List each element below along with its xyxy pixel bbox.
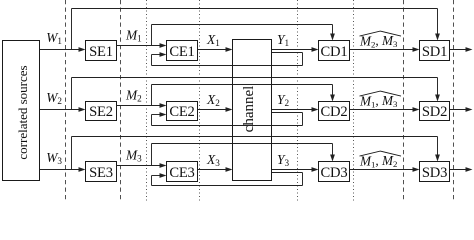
feedback wire from channel output to CE1 (tap, underpass, return) xyxy=(152,52,303,65)
wire Y1 (channel to CD1) xyxy=(272,47,319,52)
wire W1 (sources to SE1) xyxy=(40,47,86,52)
channel encoder CE1 xyxy=(167,41,198,61)
output wire of SD2 xyxy=(450,107,473,112)
wire W3 side-information feed to SD3 (riser, top run, drop) xyxy=(72,137,440,170)
svg-text:SE2: SE2 xyxy=(89,104,113,120)
stage separator (dashed) x=453.5 xyxy=(453,0,455,201)
channel decoder CD1 xyxy=(319,41,350,61)
svg-text:SD3: SD3 xyxy=(422,165,447,181)
svg-text:M1, M3: M1, M3 xyxy=(359,93,398,109)
svg-text:SE3: SE3 xyxy=(89,165,113,181)
wire W2 (sources to SE2) xyxy=(40,107,86,112)
stage separator (dotted) x=146.5 xyxy=(146,0,148,201)
wire Y3 (channel to CD3) xyxy=(272,167,319,172)
label decoded messages (hat) row 3 xyxy=(359,151,401,169)
channel box xyxy=(233,40,272,181)
wire M3 feed to CD3 (riser, top run, drop) xyxy=(152,144,335,166)
wire W1 side-information feed to SD1 (riser, top run, drop) xyxy=(72,9,440,50)
wire M2 (SE2 to CE2) xyxy=(117,103,167,108)
wire X3 (CE3 to channel) xyxy=(198,167,233,172)
wire M3 (SE3 to CE3) xyxy=(117,163,167,168)
stage separator (dashed) x=120.5 xyxy=(120,0,122,201)
wire W2 side-information feed to SD2 (riser, top run, drop) xyxy=(72,78,440,110)
channel decoder CD3 xyxy=(319,162,350,182)
label decoded messages (hat) row 2 xyxy=(359,91,401,109)
wire CD3 to SD3 xyxy=(350,167,420,172)
wire X2 (CE2 to channel) xyxy=(198,107,233,112)
channel encoder CE2 xyxy=(167,102,198,121)
svg-text:SD1: SD1 xyxy=(422,44,447,60)
correlated sources box xyxy=(3,41,40,181)
output wire of SD1 xyxy=(450,47,473,52)
stage separator (dashed) x=65.5 xyxy=(65,0,67,201)
svg-text:correlated sources: correlated sources xyxy=(15,65,30,159)
source decoder SD3 xyxy=(420,162,450,182)
wire Y2 (channel to CD2) xyxy=(272,107,319,112)
source encoder SE1 xyxy=(86,41,117,61)
svg-text:CE2: CE2 xyxy=(169,104,194,120)
wire M2 feed to CD2 (riser, top run, drop) xyxy=(152,85,335,106)
source encoder SE2 xyxy=(86,102,117,121)
svg-text:SE1: SE1 xyxy=(89,44,113,60)
channel decoder CD2 xyxy=(319,102,350,121)
wire X1 (CE1 to channel) xyxy=(198,47,233,52)
svg-text:SD2: SD2 xyxy=(422,104,447,120)
svg-text:channel: channel xyxy=(241,86,257,133)
channel encoder CE3 xyxy=(167,162,198,182)
output wire of SD3 xyxy=(450,167,473,172)
wire M1 (SE1 to CE1) xyxy=(117,43,167,48)
stage separator (dotted) x=297.5 xyxy=(297,0,299,201)
feedback wire from channel output to CE3 (tap, underpass, return) xyxy=(152,173,303,186)
wire M1 feed to CD1 (riser, top run, drop) xyxy=(152,25,335,46)
source decoder SD2 xyxy=(420,102,450,121)
feedback wire from channel output to CE2 (tap, underpass, return) xyxy=(152,112,303,125)
stage separator (dashed) x=403.5 xyxy=(403,0,405,201)
wire CD2 to SD2 xyxy=(350,107,420,112)
svg-text:M1, M2: M1, M2 xyxy=(359,153,397,169)
svg-text:CE3: CE3 xyxy=(169,165,194,181)
svg-text:M2, M3: M2, M3 xyxy=(359,33,398,49)
wire CD1 to SD1 xyxy=(350,47,420,52)
svg-text:CE1: CE1 xyxy=(169,44,194,60)
svg-text:CD1: CD1 xyxy=(321,44,348,60)
svg-text:CD3: CD3 xyxy=(321,165,348,181)
stage separator (dotted) x=199.5 xyxy=(199,0,201,201)
wire W3 (sources to SE3) xyxy=(40,167,86,172)
svg-text:CD2: CD2 xyxy=(321,104,348,120)
source decoder SD1 xyxy=(420,41,450,61)
label decoded messages (hat) row 1 xyxy=(359,31,401,49)
stage separator (dotted) x=353.5 xyxy=(353,0,355,201)
source encoder SE3 xyxy=(86,162,117,182)
